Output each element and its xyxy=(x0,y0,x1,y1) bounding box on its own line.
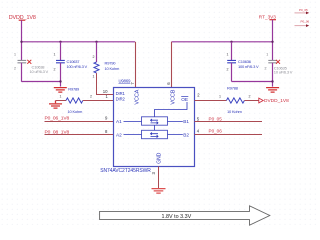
svg-text:2: 2 xyxy=(93,55,95,59)
wire left rail xyxy=(22,41,136,43)
capacitor C10635 (DNI) xyxy=(265,53,293,75)
resistor R9790 (vertical pull-up) xyxy=(93,42,120,79)
wire power entry down right xyxy=(272,20,274,60)
svg-text:B2: B2 xyxy=(183,132,189,137)
svg-text:P0_06: P0_06 xyxy=(209,129,223,134)
wire A2 net xyxy=(45,134,114,136)
svg-text:DVDD_1V8: DVDD_1V8 xyxy=(264,98,289,104)
svg-text:DIR2: DIR2 xyxy=(116,97,126,102)
capacitor C10636 xyxy=(227,42,260,72)
svg-text:10 Kohm: 10 Kohm xyxy=(105,66,120,71)
node junction right bottom rail xyxy=(271,80,273,82)
wire GND pin 3 xyxy=(158,167,160,189)
svg-text:1: 1 xyxy=(93,75,95,79)
wire C10636 bottom xyxy=(232,63,273,82)
channel buffer 1 xyxy=(142,117,168,125)
svg-text:2: 2 xyxy=(90,94,92,98)
svg-text:RT_3V3: RT_3V3 xyxy=(259,14,277,19)
svg-text:SN74AVC2T245RSWR: SN74AVC2T245RSWR xyxy=(100,168,151,174)
svg-text:GND: GND xyxy=(156,152,162,164)
svg-text:R9789: R9789 xyxy=(68,87,80,92)
node junction right entry xyxy=(271,41,273,43)
wire R9790 to pin 10 xyxy=(97,73,114,94)
svg-text:P0_05: P0_05 xyxy=(299,8,308,12)
wire C10638 bottom xyxy=(22,63,61,82)
svg-text:A2: A2 xyxy=(116,132,122,137)
svg-text:1: 1 xyxy=(60,94,62,98)
off-page connector P0_05 xyxy=(295,8,310,14)
wire B2 net xyxy=(195,134,263,136)
svg-text:VCCA: VCCA xyxy=(135,89,141,104)
svg-text:100 nF/6.3 V: 100 nF/6.3 V xyxy=(67,64,88,69)
off-page connector P0_06 xyxy=(295,20,310,27)
resistor R9789 xyxy=(56,94,93,114)
svg-text:1: 1 xyxy=(14,53,16,57)
ground (caps, left) xyxy=(54,88,67,93)
ground (caps, right) xyxy=(266,88,279,93)
op IC U9869 body SN74AVC2T245 xyxy=(114,88,195,167)
ground (IC pin 3) xyxy=(152,189,166,194)
ground (R9789 left) xyxy=(49,101,62,109)
power symbol DVDD_1V8 bar xyxy=(19,19,26,21)
wire power entry down xyxy=(21,20,23,60)
net flag DVDD_1V8 xyxy=(259,98,263,103)
wire VCCB pin 6 drop xyxy=(171,42,173,88)
svg-text:100 nF/6.3 V: 100 nF/6.3 V xyxy=(238,64,259,69)
svg-text:P0_06_1V8: P0_06_1V8 xyxy=(45,116,70,122)
wire C10635 bottom xyxy=(272,63,274,87)
channel buffer 2 xyxy=(142,130,168,138)
svg-text:R9788: R9788 xyxy=(227,86,239,91)
internal wires A1-B1 xyxy=(124,121,183,123)
wire OE pin 2 xyxy=(195,100,227,102)
wire between channel buffers xyxy=(154,125,156,130)
capacitor C10637 xyxy=(54,42,88,72)
svg-text:P0_06: P0_06 xyxy=(301,20,310,24)
svg-text:B1: B1 xyxy=(183,119,189,124)
wire B1 net xyxy=(195,121,263,123)
wire A1 net xyxy=(45,121,114,123)
node junction R9790 tap xyxy=(95,41,97,43)
internal wire OE control xyxy=(155,102,188,117)
svg-text:VCCB: VCCB xyxy=(171,89,177,104)
svg-text:R9790: R9790 xyxy=(105,60,117,65)
svg-text:1: 1 xyxy=(54,53,56,57)
svg-text:2: 2 xyxy=(227,68,229,72)
internal wires A2-B2 xyxy=(124,134,183,136)
svg-text:2: 2 xyxy=(249,94,251,98)
svg-text:2: 2 xyxy=(265,67,267,71)
resistor R9788 xyxy=(219,86,251,114)
wire right rail xyxy=(172,41,273,43)
svg-text:10 Kohm: 10 Kohm xyxy=(227,109,242,114)
node junction C10636 tap xyxy=(230,41,232,43)
svg-text:1: 1 xyxy=(266,53,268,57)
svg-text:1.8V to 3.3V: 1.8V to 3.3V xyxy=(162,214,192,220)
svg-text:A1: A1 xyxy=(116,119,122,124)
X mark DNI C10638 xyxy=(27,60,31,64)
X mark DNI C10635 xyxy=(276,60,280,64)
node junction C10637 tap xyxy=(59,41,61,43)
svg-text:P0_05: P0_05 xyxy=(209,117,223,122)
node junction caps bottom rail xyxy=(59,80,61,82)
svg-text:DIR1: DIR1 xyxy=(116,91,126,96)
svg-text:10 Kohm: 10 Kohm xyxy=(68,109,83,114)
svg-text:10 uF/6.3 V: 10 uF/6.3 V xyxy=(274,70,293,75)
svg-text:10 uF/6.3 V: 10 uF/6.3 V xyxy=(30,69,49,74)
node junction left entry xyxy=(20,41,22,43)
power symbol RT_3V3 bar xyxy=(269,19,276,21)
annotation arrow 1.8V to 3.3V xyxy=(100,206,270,225)
wire R9788 to flag xyxy=(244,100,259,102)
wire R9789 to pin 1 xyxy=(83,100,114,102)
svg-text:1: 1 xyxy=(219,94,221,98)
svg-text:2: 2 xyxy=(14,67,16,71)
svg-text:2: 2 xyxy=(54,68,56,72)
capacitor C10638 (DNI) xyxy=(14,53,49,75)
wire C10637 bottom xyxy=(60,63,62,87)
wire VCCA pin 7 drop xyxy=(135,42,137,88)
svg-text:1: 1 xyxy=(227,53,229,57)
